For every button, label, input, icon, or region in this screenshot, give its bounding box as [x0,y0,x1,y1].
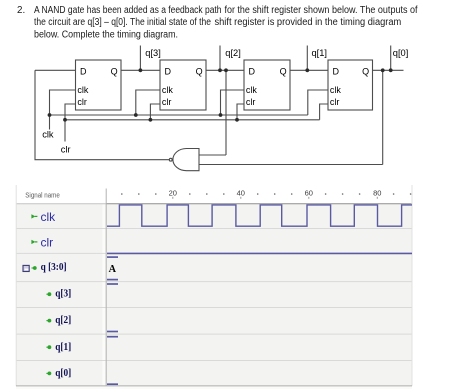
svg-text:the circuit are q[3] – q[0]. T: the circuit are q[3] – q[0]. The initial… [34,17,211,28]
svg-text:q[1]: q[1] [312,48,328,58]
svg-text:A NAND gate has been added as: A NAND gate has been added as a feedback… [34,5,222,16]
svg-text:2.: 2. [17,5,25,16]
svg-text:D: D [165,66,172,76]
svg-text:clr: clr [77,97,87,107]
svg-text:q[3]: q[3] [145,48,161,58]
svg-text:A: A [109,263,116,275]
svg-text:80: 80 [373,189,381,198]
svg-text:q[0]: q[0] [393,48,409,58]
svg-text:shift register is provided in: shift register is provided in the timing… [215,17,402,28]
svg-text:clk: clk [246,85,257,95]
svg-text:clk: clk [41,210,57,224]
svg-text:Q: Q [111,66,118,76]
svg-text:q[2]: q[2] [225,48,241,58]
svg-text:q[3]: q[3] [55,287,71,299]
svg-text:clr: clr [330,97,340,107]
svg-text:60: 60 [305,189,313,198]
svg-text:D: D [80,66,87,76]
svg-text:q[0]: q[0] [55,367,71,379]
svg-text:clk: clk [77,85,88,95]
svg-text:40: 40 [237,189,245,198]
svg-text:Q: Q [280,66,287,76]
svg-text:below. The outputs of: below. The outputs of [332,5,418,16]
svg-text:Q: Q [362,66,369,76]
svg-text:D: D [249,66,256,76]
svg-text:q[2]: q[2] [55,314,71,326]
svg-text:D: D [333,66,340,76]
svg-text:clk: clk [330,85,341,95]
svg-text:below. Complete the timing dia: below. Complete the timing diagram. [34,30,178,41]
svg-text:Q: Q [196,66,203,76]
svg-text:clr: clr [162,97,172,107]
svg-text:clk: clk [162,85,173,95]
svg-text:q[1]: q[1] [55,341,71,353]
svg-text:clr: clr [41,236,54,250]
svg-text:for the shift register shown: for the shift register shown [225,5,330,16]
svg-text:Signal name: Signal name [25,190,60,199]
svg-text:clr: clr [61,144,71,154]
svg-text:20: 20 [169,189,177,198]
svg-text:clr: clr [246,97,256,107]
svg-text:clk: clk [42,130,54,140]
svg-text:q [3:0]: q [3:0] [41,261,67,273]
